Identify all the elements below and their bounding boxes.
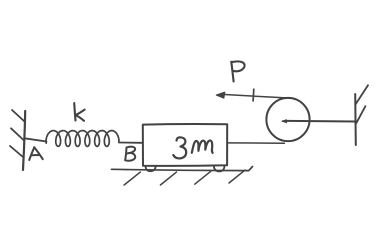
- wall anchor left (fixed support at A): [10, 110, 25, 170]
- ground hatch 4: [229, 170, 245, 183]
- rope over pulley (top) to force P: [223, 94, 294, 98]
- mass block 3m: [143, 124, 227, 166]
- label 3m (mass value): [173, 137, 212, 158]
- wheel right (roller under block): [214, 166, 225, 172]
- label k (spring constant): [74, 103, 84, 121]
- wire wall to spring: [25, 138, 47, 141]
- rope block to pulley (bottom): [227, 142, 284, 144]
- wire spring to block at B: [119, 142, 143, 144]
- axle link to right wall: [288, 120, 356, 123]
- node A label: [29, 147, 43, 160]
- ground hatch 1: [124, 172, 140, 185]
- label P (force): [231, 61, 244, 81]
- ground line: [112, 167, 253, 171]
- ground hatch 2: [160, 172, 176, 185]
- wheel left (roller under block): [146, 166, 156, 171]
- spring k: [46, 131, 119, 147]
- node B label: [125, 147, 135, 161]
- wall anchor right (pulley support): [355, 85, 368, 145]
- pulley (circle): [266, 98, 309, 141]
- pulley axle pin (center mark with small arrowhead): [282, 120, 288, 123]
- tick mark on rope: [252, 89, 255, 101]
- force P arrowhead: [216, 92, 224, 98]
- ground hatch 3: [195, 171, 211, 184]
